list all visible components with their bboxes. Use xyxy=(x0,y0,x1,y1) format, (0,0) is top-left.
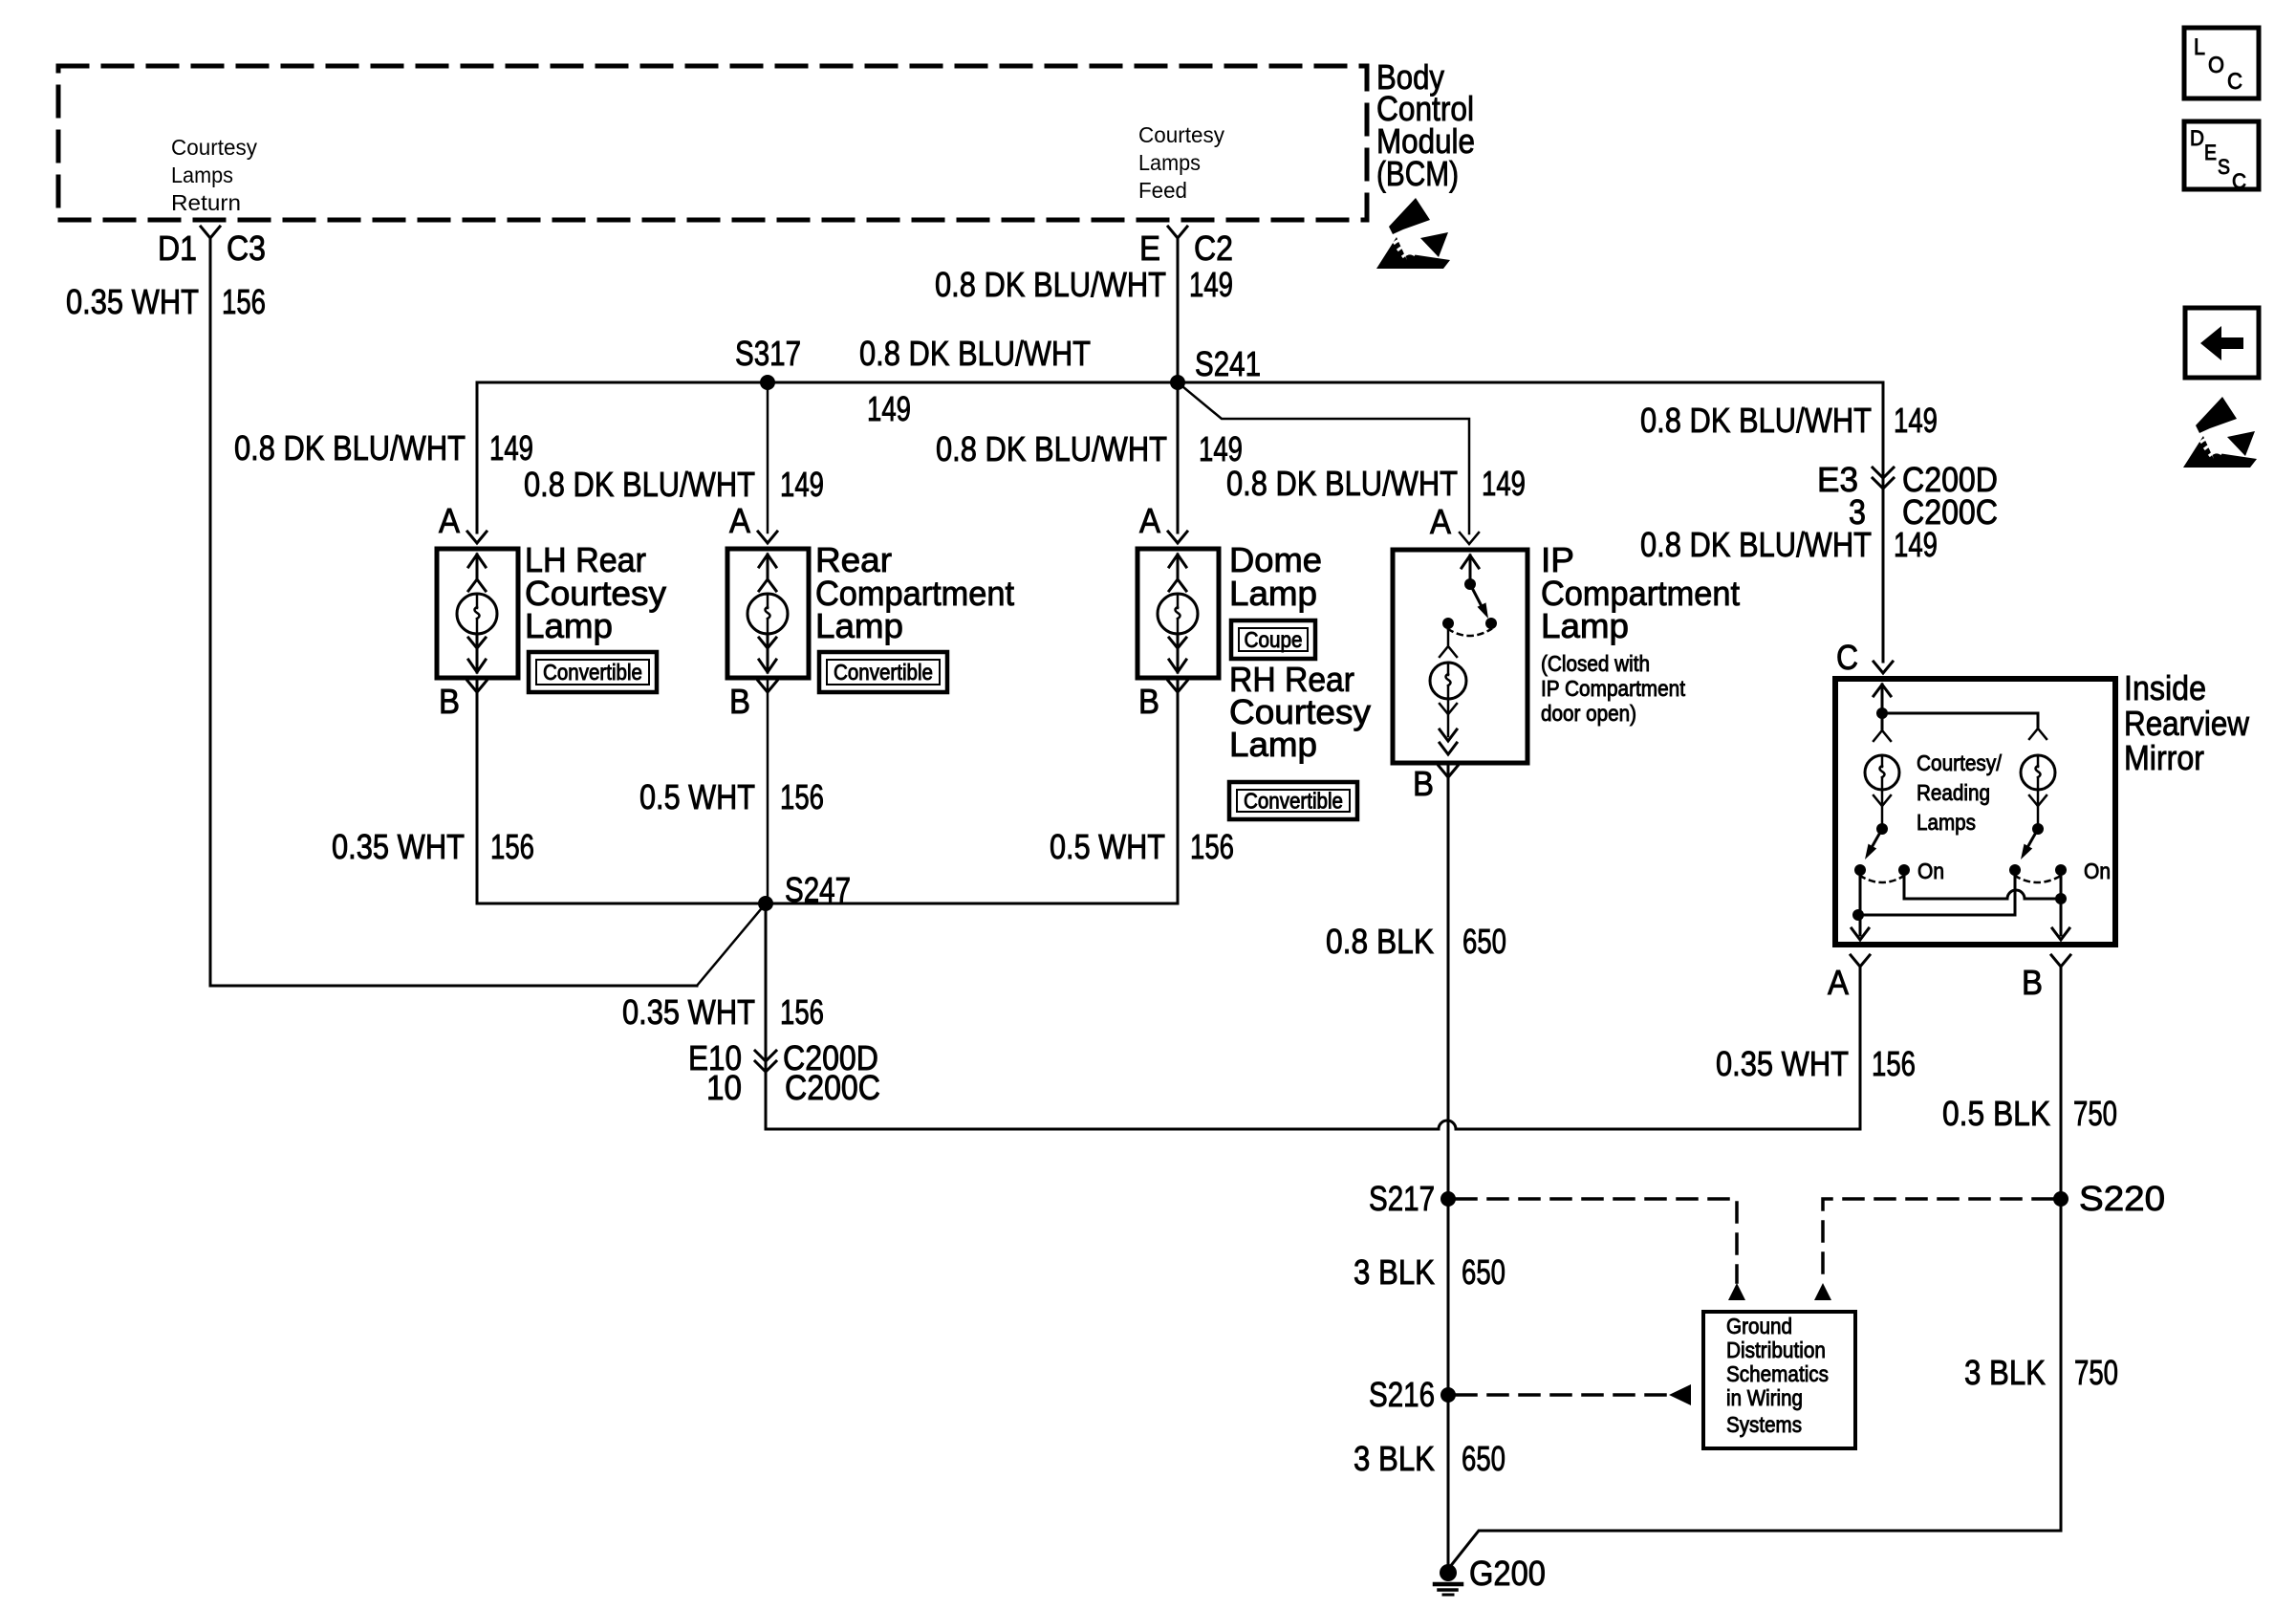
svg-text:G200: G200 xyxy=(1469,1554,1546,1593)
BCM pin function label: Courtesy Lamps Feed xyxy=(1138,122,1224,203)
svg-text:149: 149 xyxy=(1189,265,1233,304)
svg-text:0.5 BLK: 0.5 BLK xyxy=(1942,1094,2050,1133)
svg-text:149: 149 xyxy=(489,428,533,468)
mirror name xyxy=(2124,668,2250,777)
svg-text:A: A xyxy=(1828,963,1849,1002)
wire S247 down to C200 connector xyxy=(765,903,768,1129)
svg-text:Lamp: Lamp xyxy=(525,606,613,645)
mirror lamps label Courtesy/Reading Lamps xyxy=(1917,751,2003,835)
splice S241 xyxy=(1170,344,1261,390)
svg-text:C: C xyxy=(2232,169,2246,193)
svg-text:149: 149 xyxy=(1482,464,1526,503)
svg-text:IP Compartment: IP Compartment xyxy=(1541,676,1686,701)
rear compartment lamp pin A terminal xyxy=(729,501,777,543)
svg-text:0.8 DK BLU/WHT: 0.8 DK BLU/WHT xyxy=(524,465,755,504)
label 0.5 WHT 156 (rear compartment return) xyxy=(639,777,824,816)
svg-text:0.8 BLK: 0.8 BLK xyxy=(1326,922,1434,961)
dome lamp name xyxy=(1229,540,1322,613)
svg-text:Convertible: Convertible xyxy=(543,660,642,685)
svg-text:Mirror: Mirror xyxy=(2124,738,2204,777)
wire 0.35 WHT 156 from BCM D1/C3 down xyxy=(209,238,212,986)
dashed reference from S217 to ground distribution xyxy=(1457,1199,1745,1300)
label 0.35 WHT 156 (below S247) xyxy=(622,992,824,1032)
Body Control Module (BCM) dashed box xyxy=(58,66,1367,220)
mirror pin A terminal xyxy=(1828,955,1870,1002)
svg-text:C3: C3 xyxy=(227,228,266,268)
svg-text:156: 156 xyxy=(780,992,824,1032)
svg-text:On: On xyxy=(1917,859,1944,883)
svg-text:S241: S241 xyxy=(1195,344,1261,383)
legend ESD sensitivity symbol xyxy=(2183,397,2257,468)
svg-text:Systems: Systems xyxy=(1726,1412,1802,1437)
svg-text:Inside: Inside xyxy=(2124,668,2206,707)
RH rear courtesy lamp Convertible badge xyxy=(1229,782,1357,819)
svg-text:S217: S217 xyxy=(1369,1179,1435,1218)
svg-text:D: D xyxy=(2190,126,2204,150)
svg-text:0.8 DK BLU/WHT: 0.8 DK BLU/WHT xyxy=(234,428,466,468)
svg-text:B: B xyxy=(439,682,460,721)
mirror wiring to pin B (with hop) xyxy=(1904,870,2069,940)
svg-text:149: 149 xyxy=(867,389,911,428)
mirror feed split node xyxy=(1874,685,2038,727)
svg-text:156: 156 xyxy=(222,282,266,321)
svg-text:C: C xyxy=(2227,69,2242,95)
wire horizontal return run to S247 xyxy=(210,985,697,988)
ground G200 xyxy=(1435,1554,1546,1595)
dome lamp Coupe badge xyxy=(1231,620,1315,659)
label 0.8 DK BLU/WHT 149 (LH branch) xyxy=(234,428,533,468)
dome lamp pin B terminal xyxy=(1138,681,1187,721)
svg-text:Courtesy: Courtesy xyxy=(171,135,257,160)
svg-text:C: C xyxy=(1836,638,1858,677)
svg-text:Lamps: Lamps xyxy=(1917,810,1976,835)
Dome Lamp box xyxy=(1137,549,1219,678)
svg-text:0.5 WHT: 0.5 WHT xyxy=(639,777,755,816)
svg-text:L: L xyxy=(2194,34,2205,60)
wire return bus (horizontal) xyxy=(477,903,1178,905)
LH lamp name xyxy=(525,540,666,645)
connector C200D/C200C pin E10/10 xyxy=(688,1038,880,1107)
connector C200D/C200C pin E3/3 xyxy=(1817,460,1998,532)
wire IP lamp ground down xyxy=(1447,766,1450,1568)
svg-text:0.5 WHT: 0.5 WHT xyxy=(1050,827,1165,866)
IP lamp door switch xyxy=(1442,555,1497,636)
LH lamp bulb internals xyxy=(457,555,497,672)
label 0.8 BLK 650 (IP ground) xyxy=(1326,922,1506,961)
svg-text:156: 156 xyxy=(1872,1044,1916,1083)
svg-text:0.35 WHT: 0.35 WHT xyxy=(1716,1044,1849,1083)
label 0.35 WHT 156 (mirror pin A) xyxy=(1716,1044,1916,1083)
IP lamp note (Closed with IP Compartment door open) xyxy=(1541,651,1686,726)
svg-text:Courtesy: Courtesy xyxy=(1138,122,1224,147)
dome lamp pin A terminal xyxy=(1139,501,1187,543)
svg-text:B: B xyxy=(1413,764,1434,803)
LH lamp pin B terminal xyxy=(439,681,487,721)
svg-text:3 BLK: 3 BLK xyxy=(1964,1353,2046,1392)
BCM ESD sensitivity symbol xyxy=(1376,198,1450,269)
mirror pin C terminal xyxy=(1836,638,1893,677)
svg-text:156: 156 xyxy=(780,777,824,816)
svg-text:S317: S317 xyxy=(735,334,801,373)
svg-text:0.8 DK BLU/WHT: 0.8 DK BLU/WHT xyxy=(859,334,1091,373)
legend icon back-arrow xyxy=(2185,308,2259,378)
svg-text:0.35 WHT: 0.35 WHT xyxy=(622,992,755,1032)
BCM pin D1/C3 terminal xyxy=(158,227,266,268)
splice S220 xyxy=(2053,1179,2165,1218)
label 3 BLK 650 (upper) xyxy=(1354,1252,1505,1292)
svg-text:Reading: Reading xyxy=(1917,780,1990,805)
svg-text:E: E xyxy=(1139,228,1160,268)
label 0.8 DK BLU/WHT 149 (feed from BCM) xyxy=(935,265,1233,304)
label 3 BLK 750 xyxy=(1964,1353,2118,1392)
svg-text:S216: S216 xyxy=(1369,1375,1435,1414)
wire feed branch S317 to rear compartment lamp xyxy=(767,382,769,533)
wire return run to mirror pin A (with hop over IP ground wire) xyxy=(766,968,1860,1129)
svg-text:in Wiring: in Wiring xyxy=(1726,1385,1803,1410)
wire dome lamp return down xyxy=(1177,681,1180,903)
svg-text:Lamp: Lamp xyxy=(1229,725,1317,764)
BCM pin E/C2 terminal xyxy=(1139,227,1233,268)
svg-text:0.8 DK BLU/WHT: 0.8 DK BLU/WHT xyxy=(936,429,1167,468)
label 3 BLK 650 (lower) xyxy=(1354,1439,1505,1478)
svg-text:A: A xyxy=(1430,502,1451,541)
legend icon LOC xyxy=(2184,28,2259,98)
svg-text:Lamp: Lamp xyxy=(815,606,903,645)
svg-text:Convertible: Convertible xyxy=(1244,789,1343,814)
svg-text:0.8 DK BLU/WHT: 0.8 DK BLU/WHT xyxy=(1640,525,1872,564)
rear compartment lamp name xyxy=(815,540,1014,645)
wire feed S241 down to dome lamp xyxy=(1177,382,1180,533)
mirror right lamp xyxy=(2021,729,2055,829)
svg-text:149: 149 xyxy=(1199,429,1243,468)
RH Rear Courtesy Lamp name xyxy=(1229,660,1371,764)
IP lamp pin B terminal xyxy=(1413,764,1458,803)
wire S241 diagonal branch to IP lamp xyxy=(1178,382,1469,533)
svg-text:E: E xyxy=(2204,141,2217,164)
svg-text:0.8 DK BLU/WHT: 0.8 DK BLU/WHT xyxy=(935,265,1166,304)
svg-text:Rearview: Rearview xyxy=(2124,704,2250,743)
svg-text:Feed: Feed xyxy=(1138,178,1187,203)
svg-text:(Closed with: (Closed with xyxy=(1541,651,1650,676)
svg-text:Schematics: Schematics xyxy=(1726,1361,1829,1386)
splice S317 xyxy=(735,334,801,390)
IP Compartment Lamp box xyxy=(1393,550,1527,763)
svg-text:Lamp: Lamp xyxy=(1541,606,1629,645)
splice S216 xyxy=(1369,1375,1456,1414)
mirror left switch xyxy=(1854,823,1944,883)
svg-text:A: A xyxy=(729,501,750,540)
svg-text:S247: S247 xyxy=(785,870,851,909)
svg-text:A: A xyxy=(439,501,460,540)
IP lamp bulb xyxy=(1430,629,1466,754)
wire mirror ground run to G200 xyxy=(1449,1531,2061,1568)
svg-text:B: B xyxy=(729,682,750,721)
wire LH lamp return down xyxy=(476,681,479,903)
svg-text:0.35 WHT: 0.35 WHT xyxy=(332,827,465,866)
svg-text:650: 650 xyxy=(1462,1252,1505,1292)
label 0.5 BLK 750 (mirror ground) xyxy=(1942,1094,2117,1133)
wire diagonal into S247 xyxy=(697,903,766,986)
BCM pin function label: Courtesy Lamps Return xyxy=(171,135,257,215)
svg-text:O: O xyxy=(2208,53,2224,78)
label 0.35 WHT 156 (BCM return wire) xyxy=(66,282,266,321)
Ground Distribution Schematics reference box xyxy=(1703,1312,1855,1448)
dashed reference from S216 to ground distribution xyxy=(1457,1384,1691,1405)
mirror pin B terminal xyxy=(2022,955,2070,1002)
legend icon DESC xyxy=(2184,121,2259,193)
LH Rear Courtesy Lamp box xyxy=(437,549,518,678)
svg-text:0.8 DK BLU/WHT: 0.8 DK BLU/WHT xyxy=(1226,464,1458,503)
svg-text:Coupe: Coupe xyxy=(1245,627,1303,652)
label 0.8 DK BLU/WHT 149 (above C200) xyxy=(1640,401,1938,440)
svg-text:C2: C2 xyxy=(1194,228,1233,268)
splice S247 xyxy=(758,870,851,911)
mirror right switch xyxy=(2009,823,2111,883)
dome lamp bulb internals xyxy=(1158,555,1198,672)
svg-text:0.35 WHT: 0.35 WHT xyxy=(66,282,199,321)
label 0.5 WHT 156 (dome return) xyxy=(1050,827,1234,866)
LH lamp pin A terminal xyxy=(439,501,487,543)
svg-text:C200C: C200C xyxy=(785,1068,880,1107)
rear compartment lamp Convertible badge xyxy=(819,652,947,692)
label 0.35 WHT 156 (LH return) xyxy=(332,827,534,866)
ground distribution reference text xyxy=(1726,1314,1829,1437)
svg-text:A: A xyxy=(1139,501,1160,540)
label 0.8 DK BLU/WHT 149 (rear compartment branch) xyxy=(524,465,824,504)
Inside Rearview Mirror box xyxy=(1835,679,2115,945)
rear compartment lamp bulb internals xyxy=(747,555,788,672)
svg-text:D1: D1 xyxy=(158,228,197,268)
svg-text:156: 156 xyxy=(1190,827,1234,866)
svg-text:156: 156 xyxy=(490,827,534,866)
label 0.8 DK BLU/WHT 149 (dome branch) xyxy=(936,429,1243,468)
label 0.8 DK BLU/WHT 149 (IP branch) xyxy=(1226,464,1526,503)
svg-text:S220: S220 xyxy=(2079,1179,2165,1218)
wire feed branch to LH rear courtesy lamp xyxy=(476,382,479,533)
BCM name label xyxy=(1376,57,1475,193)
svg-text:Lamps: Lamps xyxy=(171,163,233,187)
svg-text:Lamp: Lamp xyxy=(1229,574,1317,613)
svg-text:B: B xyxy=(2022,963,2043,1002)
svg-text:750: 750 xyxy=(2073,1094,2117,1133)
svg-text:149: 149 xyxy=(1894,525,1938,564)
Rear Compartment Lamp box xyxy=(727,549,809,678)
svg-text:149: 149 xyxy=(1894,401,1938,440)
svg-text:650: 650 xyxy=(1462,922,1506,961)
svg-text:3 BLK: 3 BLK xyxy=(1354,1252,1435,1292)
svg-text:0.8 DK BLU/WHT: 0.8 DK BLU/WHT xyxy=(1640,401,1872,440)
mirror wiring to pin A xyxy=(1852,870,2015,940)
svg-text:Ground: Ground xyxy=(1726,1314,1792,1338)
LH lamp Convertible badge xyxy=(529,652,657,692)
svg-text:149: 149 xyxy=(780,465,824,504)
svg-text:750: 750 xyxy=(2074,1353,2118,1392)
svg-text:(BCM): (BCM) xyxy=(1376,154,1459,193)
label 0.8 DK BLU/WHT 149 on bus right of S317 xyxy=(859,334,1091,428)
svg-text:Convertible: Convertible xyxy=(834,660,933,685)
IP lamp pin A terminal xyxy=(1430,502,1479,544)
svg-text:10: 10 xyxy=(706,1068,742,1107)
svg-text:Courtesy/: Courtesy/ xyxy=(1917,751,2003,775)
wire rear compartment lamp return down to S247 xyxy=(767,681,769,903)
dashed reference from S220 to ground distribution xyxy=(1814,1199,2052,1300)
svg-text:door open): door open) xyxy=(1541,701,1636,726)
label 0.8 DK BLU/WHT 149 (below C200) xyxy=(1640,525,1938,564)
svg-text:On: On xyxy=(2084,859,2111,883)
svg-text:Lamps: Lamps xyxy=(1138,150,1201,175)
wire main feed bus (horizontal) xyxy=(477,381,1883,384)
wire mirror pin B ground down xyxy=(2060,967,2063,1531)
wire 0.8 DK BLU/WHT 149 from BCM E/C2 down to S241 xyxy=(1177,238,1180,382)
rear compartment lamp pin B terminal xyxy=(729,681,777,721)
svg-text:B: B xyxy=(1138,682,1159,721)
mirror left lamp xyxy=(1865,713,1899,829)
splice S217 xyxy=(1369,1179,1456,1218)
IP lamp name xyxy=(1541,540,1740,645)
wire feed bus right end down to mirror pin C xyxy=(1882,382,1885,662)
svg-text:3 BLK: 3 BLK xyxy=(1354,1439,1435,1478)
svg-text:S: S xyxy=(2218,155,2230,179)
svg-text:Return: Return xyxy=(171,190,241,215)
svg-text:Distribution: Distribution xyxy=(1726,1338,1826,1362)
svg-text:650: 650 xyxy=(1462,1439,1505,1478)
